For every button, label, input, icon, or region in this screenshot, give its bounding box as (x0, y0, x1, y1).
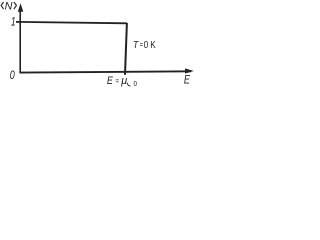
axis label right angle bracket (14, 2, 17, 9)
svg-text:T: T (133, 40, 139, 51)
svg-text:N: N (5, 0, 13, 12)
svg-text:E: E (107, 75, 114, 87)
y-axis arrowhead (18, 3, 24, 12)
svg-text:0: 0 (134, 81, 138, 88)
x-axis (20, 71, 192, 72)
axis label left angle bracket (1, 2, 4, 9)
svg-text:K: K (150, 40, 156, 51)
svg-text:μ: μ (120, 75, 127, 87)
svg-text:E: E (184, 74, 190, 86)
svg-text:0: 0 (10, 68, 15, 82)
svg-text:0: 0 (144, 40, 149, 51)
step function top line with tick at 1 (16, 22, 127, 23)
mu tail stroke (127, 83, 131, 86)
y-axis (19, 8, 21, 74)
x-axis arrowhead (185, 68, 194, 73)
step function drop at E = mu0 (125, 23, 127, 75)
svg-text:=: = (116, 77, 120, 86)
svg-text:1: 1 (11, 15, 16, 29)
